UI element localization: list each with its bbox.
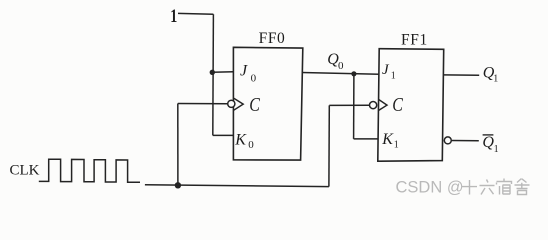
wire vertical from 1 down to K0 level — [212, 14, 215, 135]
wire from 1 to top corner — [178, 12, 213, 15]
wire into K0 — [213, 134, 234, 136]
svg-text:C: C — [249, 94, 261, 116]
svg-text:0: 0 — [251, 72, 257, 84]
svg-text:1: 1 — [493, 74, 498, 85]
net label Q1-bar overline — [483, 134, 494, 136]
wire riser from Q0 down to K1 — [353, 74, 355, 139]
dynamic clock triangle FF1 — [379, 99, 388, 110]
svg-text:J: J — [240, 63, 248, 80]
svg-text:C: C — [392, 94, 404, 116]
svg-text:1: 1 — [394, 140, 399, 151]
inversion bubble Q1-bar output — [444, 137, 451, 144]
svg-text:1: 1 — [391, 71, 396, 82]
flip-flop FF1 box — [378, 49, 444, 162]
svg-text:K: K — [381, 131, 394, 148]
svg-text:FF0: FF0 — [259, 30, 286, 47]
dynamic clock triangle FF0 — [234, 98, 243, 110]
wire Q1 output — [443, 74, 479, 76]
wire into J0 — [212, 71, 233, 73]
svg-text:0: 0 — [338, 60, 344, 72]
node junction dot at J0 — [210, 70, 215, 75]
wire riser from CLK to C of FF1 — [328, 105, 330, 186]
svg-text:CSDN @: CSDN @ — [396, 179, 464, 197]
flip-flop FF0 box — [233, 47, 302, 160]
svg-text:Q: Q — [482, 134, 494, 151]
node junction dot on CLK line — [175, 182, 181, 188]
node 1 (constant high) label — [170, 5, 177, 27]
wire into C of FF1 — [329, 104, 369, 106]
svg-text:FF1: FF1 — [401, 32, 428, 49]
wire CLK main horizontal — [145, 185, 329, 187]
inversion bubble C of FF0 — [228, 100, 235, 107]
watermark glyph su (lodge) — [497, 179, 512, 195]
wire vertical riser from CLK line — [177, 104, 179, 186]
watermark glyph shi (ten) — [462, 179, 530, 195]
svg-text:1: 1 — [170, 5, 177, 27]
node junction dot on Q0 wire — [351, 71, 356, 76]
watermark glyph she (house) — [515, 179, 530, 195]
watermark glyph liu (six) — [480, 180, 495, 195]
CLK square waveform — [39, 159, 140, 182]
svg-text:1: 1 — [494, 144, 499, 155]
wire CLK riser to C of FF0 — [178, 103, 228, 105]
svg-text:K: K — [234, 131, 247, 148]
wire into K1 — [354, 138, 378, 140]
svg-text:CLK: CLK — [10, 163, 40, 179]
svg-text:0: 0 — [248, 139, 254, 151]
wire Q0 from FF0 to J1 — [302, 73, 380, 75]
inversion bubble C of FF1 — [370, 102, 377, 109]
wire Q1-bar output — [452, 140, 479, 142]
